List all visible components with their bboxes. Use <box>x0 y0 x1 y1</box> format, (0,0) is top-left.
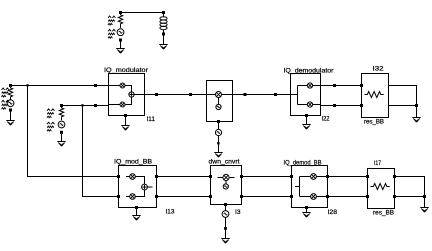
mixer (dwn_cnvrt) <box>218 177 223 179</box>
wire: stem to ground (top pair left) <box>120 42 122 49</box>
ground (demod_BB) <box>302 213 310 218</box>
wire: vertical from (82.5,105.5) down and right to IQ_mod_BB input Q <box>83 106 119 197</box>
svg-text:I28: I28 <box>328 209 338 216</box>
op-block up-converter box <box>207 81 233 122</box>
wire: res_BB bottom outputs to ground rail <box>395 177 425 208</box>
ground (dwn_cnvrt chain) <box>221 239 229 244</box>
node: res_BB bottom-right upper pin <box>393 175 396 178</box>
wire: modulator output to up-converter <box>145 94 207 96</box>
node: below inductor <box>162 33 165 36</box>
op-block IQ_mod_BB box <box>119 166 157 208</box>
label squiggles (source2) <box>47 109 54 118</box>
wire: stem below oscillator <box>218 136 220 153</box>
wire: dwn_cnvrt to IQ_demod_BB lower <box>242 196 292 198</box>
node: mod_BB right lower pin <box>155 195 158 198</box>
node: top of L_top branch <box>162 11 165 14</box>
node: demod_BB bottom pin <box>305 206 308 209</box>
mixer (mod_BB Q) <box>126 196 130 198</box>
wire: source1 to IQ_modulator input I <box>11 85 109 87</box>
wire: demodulator Q out to res_BB <box>321 105 362 107</box>
ground (source1) <box>6 121 14 126</box>
node: on Q wire <box>333 104 336 107</box>
node: on RF wire <box>244 93 247 96</box>
wire: demod_BB to res_BB upper <box>328 176 368 178</box>
wire: mod_BB to dwn_cnvrt upper <box>157 176 211 178</box>
node: dwn_cnvrt left lower pin <box>209 195 212 198</box>
node: modulator bottom pin <box>124 114 127 117</box>
wire: stem to ground (source2) <box>61 134 63 142</box>
oscillator source (below dwn_cnvrt) <box>222 211 229 218</box>
node: source1 top <box>9 84 12 87</box>
node: demod_BB left upper pin <box>290 175 293 178</box>
node: res_BB bottom-right lower pin <box>393 195 396 198</box>
node: below source2 <box>60 131 63 134</box>
label squiggles (source1) <box>2 88 10 97</box>
oscillator source (below up-converter) <box>215 129 221 135</box>
resistor (source1 branch) <box>8 87 12 100</box>
svg-text:I17: I17 <box>374 160 381 167</box>
svg-text:I13: I13 <box>166 209 175 216</box>
wire: stem to LO source <box>218 123 220 129</box>
ground (demodulator) <box>302 125 310 130</box>
ground (source2) <box>57 142 65 147</box>
node: on RF wire <box>189 93 192 96</box>
node: top of R_top source branch <box>119 11 122 14</box>
source V_1Tone SRC2 <box>58 121 65 128</box>
mixer (demodulator I) <box>307 83 312 88</box>
wire: demod_BB to res_BB lower <box>328 196 368 198</box>
node: source2 top <box>60 104 63 107</box>
node: mod_BB left lower pin <box>117 195 120 198</box>
node dot on stem <box>217 142 219 144</box>
svg-text:I11: I11 <box>147 116 156 123</box>
node: mod_BB bottom pin <box>135 206 138 209</box>
resistor (source2 branch) <box>59 107 63 120</box>
junction dot at x27.5 <box>26 84 28 86</box>
node: demod_BB right lower pin <box>326 195 329 198</box>
wire: top bias pair horizontal <box>121 12 164 14</box>
node: below source1 <box>9 109 12 112</box>
wire: stem below oscillator (dwn_cnvrt) <box>225 217 227 238</box>
ground (mod_BB) <box>132 216 140 221</box>
node: on wire y105.5 <box>94 104 97 107</box>
wire: demodulator I out to res_BB <box>321 85 362 87</box>
block res_BB (top) box <box>362 74 389 118</box>
ground (up-converter chain) <box>214 153 222 158</box>
ground (modulator) <box>121 126 129 131</box>
svg-text:I3: I3 <box>235 209 241 216</box>
svg-text:IQ_modulator: IQ_modulator <box>104 67 149 74</box>
ground (res_BB top) <box>412 118 420 123</box>
node: dwn_cnvrt left upper pin <box>209 175 212 178</box>
node: on RF wire <box>155 93 158 96</box>
mixer (modulator Q) <box>109 104 121 106</box>
summer (modulator) <box>125 86 132 105</box>
wire: source2 to IQ_modulator input Q <box>62 105 109 107</box>
node: demod_BB right upper pin <box>326 175 329 178</box>
wire: vertical from (27.5,85) down and right to IQ_mod_BB input I <box>28 86 119 177</box>
source V_1Tone SRC1 <box>7 100 14 107</box>
op-block IQ_demod_BB box <box>292 166 328 208</box>
label squiggles (top pair component values) <box>108 16 116 25</box>
node: dwn_cnvrt right lower pin <box>240 195 243 198</box>
node: on ground rail <box>415 104 418 107</box>
node: mod_BB left upper pin <box>117 175 120 178</box>
resistor (top pair, left branch) <box>118 14 122 28</box>
node: res_BB bottom-left upper pin <box>366 175 369 178</box>
mixer (demodulator Q) <box>307 102 312 107</box>
node: dwn_cnvrt right upper pin <box>240 175 243 178</box>
svg-text:res_BB: res_BB <box>373 210 394 217</box>
node: below source (top pair) <box>119 39 122 42</box>
mixer (up-converter) <box>207 94 216 96</box>
ground (res_BB bottom) <box>420 208 428 213</box>
summer (mod_BB) <box>135 177 144 197</box>
node: demodulator bottom pin <box>305 114 308 117</box>
inductor (top pair, right branch) <box>163 14 165 17</box>
node square on stem <box>224 227 227 230</box>
wire: stem to ground (demod_BB) <box>306 209 308 213</box>
node: res_BB left upper pin <box>360 84 363 87</box>
source V_1Tone (top pair) <box>117 29 124 36</box>
mixer (demod_BB Q) <box>311 194 317 200</box>
node: on bottom ground rail <box>423 195 426 198</box>
wire: stem to ground (top pair right) <box>163 36 165 45</box>
wire: up-converter to IQ_demodulator <box>233 94 291 96</box>
wire: stem to ground (demodulator) <box>306 117 308 125</box>
oscillator (dwn_cnvrt LO) <box>225 181 227 184</box>
ground (top pair right) <box>159 45 167 50</box>
node: dwn_cnvrt bottom pin <box>224 203 227 206</box>
op-block dwn_cnvrt box <box>211 166 242 205</box>
wire: stem to ground (mod_BB) <box>136 209 138 216</box>
node: on I wire <box>333 84 336 87</box>
mixer (modulator I) <box>109 85 121 87</box>
op-block IQ_demodulator box <box>291 74 321 116</box>
block res_BB (bottom) box <box>368 169 395 209</box>
ground (top pair left) <box>116 49 124 54</box>
junction dot at x82.5 <box>81 104 83 106</box>
node: res_BB left lower pin <box>360 104 363 107</box>
svg-text:I22: I22 <box>322 116 330 123</box>
node: on RF wire <box>274 93 277 96</box>
splitter (demodulator input) <box>291 86 308 105</box>
resistor (res_BB top) <box>365 92 384 98</box>
op-block U1 IQ_modulator box <box>109 74 145 116</box>
mixer (demod_BB I) <box>311 174 317 180</box>
svg-text:dwn_cnvrt: dwn_cnvrt <box>209 159 240 166</box>
wire: dwn_cnvrt to IQ_demod_BB upper <box>242 176 292 178</box>
svg-text:I32: I32 <box>373 65 385 72</box>
node: on wire y85 <box>94 84 97 87</box>
node: mod_BB right upper pin <box>155 175 158 178</box>
wire: stem to LO source (dwn_cnvrt) <box>225 206 227 211</box>
wire: stem to ground (modulator) <box>125 117 127 126</box>
svg-text:res_BB: res_BB <box>364 119 384 126</box>
splitter (demod_BB input) <box>295 177 310 197</box>
resistor (res_BB bottom) <box>371 184 390 190</box>
svg-text:IQ_mod_BB: IQ_mod_BB <box>114 158 152 165</box>
mixer (mod_BB I) <box>126 176 130 178</box>
wire: mod_BB to dwn_cnvrt lower <box>157 196 211 198</box>
oscillator (up-converter LO) <box>218 98 220 105</box>
node: demod_BB left lower pin <box>290 195 293 198</box>
node: up-converter bottom pin <box>217 120 220 123</box>
wire: stem to ground (source1) <box>10 112 12 121</box>
wire: res_BB outputs to ground rail <box>389 86 417 118</box>
node: res_BB bottom-left lower pin <box>366 195 369 198</box>
